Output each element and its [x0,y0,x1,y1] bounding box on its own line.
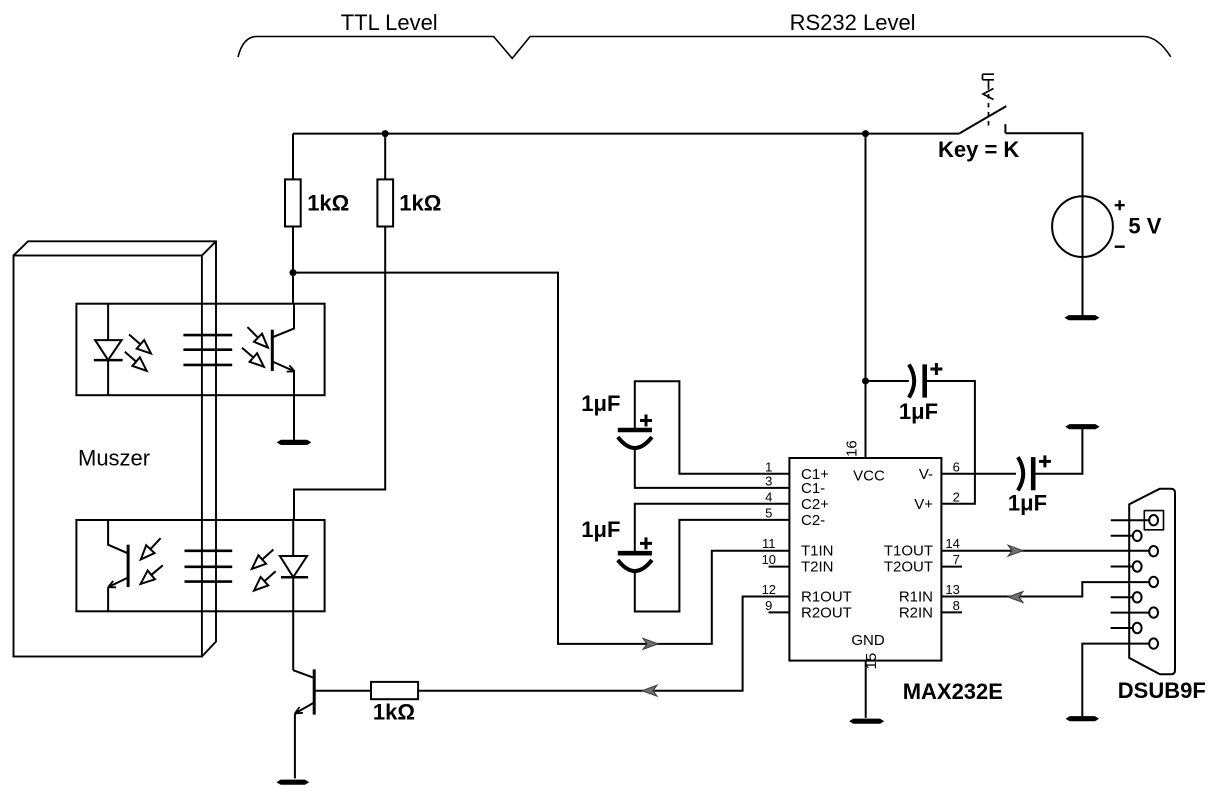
svg-text:1μF: 1μF [1008,491,1047,516]
svg-text:2: 2 [953,489,960,504]
svg-text:V-: V- [919,466,933,483]
svg-text:12: 12 [762,582,776,597]
svg-text:C2+: C2+ [801,496,829,513]
svg-text:R2OUT: R2OUT [801,604,852,621]
svg-text:C2-: C2- [801,512,825,529]
svg-text:1μF: 1μF [581,517,620,542]
svg-text:13: 13 [945,582,959,597]
svg-text:1: 1 [765,459,772,474]
svg-text:T2OUT: T2OUT [884,559,933,576]
svg-text:Muszer: Muszer [78,446,150,471]
svg-text:5: 5 [765,505,772,520]
svg-text:MAX232E: MAX232E [903,679,1003,704]
svg-text:16: 16 [844,440,861,457]
svg-text:4: 4 [765,489,772,504]
svg-text:14: 14 [945,536,959,551]
svg-text:RS232 Level: RS232 Level [790,10,916,35]
svg-text:Key = K: Key = K [938,137,1019,162]
svg-text:15: 15 [863,653,880,670]
svg-text:9: 9 [765,598,772,613]
svg-text:7: 7 [953,552,960,567]
svg-text:T1IN: T1IN [801,543,834,560]
svg-text:8: 8 [953,598,960,613]
svg-text:11: 11 [762,536,776,551]
svg-text:6: 6 [953,459,960,474]
svg-text:1kΩ: 1kΩ [399,191,441,216]
svg-text:GND: GND [851,632,885,649]
svg-text:3: 3 [765,473,772,488]
svg-text:V+: V+ [914,496,933,513]
svg-text:1μF: 1μF [581,391,620,416]
svg-text:TTL Level: TTL Level [341,10,438,35]
svg-text:1μF: 1μF [899,399,938,424]
svg-text:R1OUT: R1OUT [801,589,852,606]
svg-text:R2IN: R2IN [899,604,933,621]
svg-text:C1-: C1- [801,480,825,497]
svg-text:T2IN: T2IN [801,559,834,576]
svg-text:R1IN: R1IN [899,589,933,606]
svg-text:VCC: VCC [853,467,885,484]
svg-text:10: 10 [762,552,776,567]
svg-text:1kΩ: 1kΩ [307,191,349,216]
svg-text:DSUB9F: DSUB9F [1118,678,1206,703]
svg-text:T1OUT: T1OUT [884,543,933,560]
svg-text:1kΩ: 1kΩ [373,700,415,725]
svg-text:5 V: 5 V [1128,214,1161,239]
